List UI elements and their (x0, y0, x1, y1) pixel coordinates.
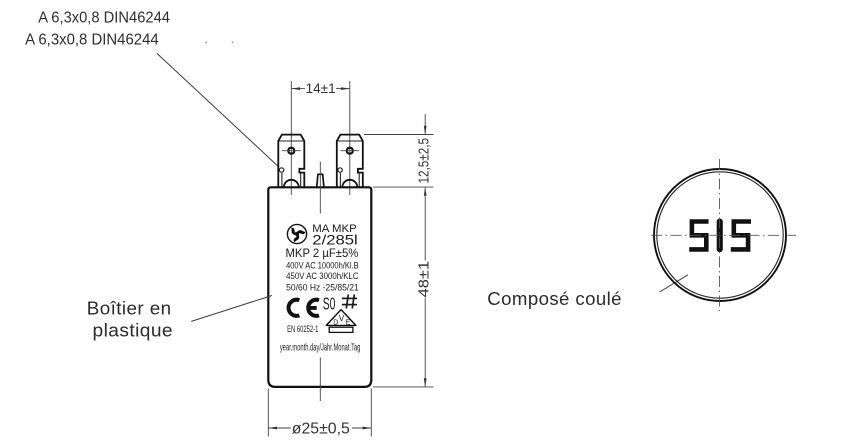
svg-text:450V AC 3000h/KLC: 450V AC 3000h/KLC (286, 271, 359, 281)
svg-text:50/60 Hz -25/85/21: 50/60 Hz -25/85/21 (286, 282, 359, 292)
svg-text:12,5±2,5: 12,5±2,5 (415, 138, 432, 184)
svg-text:14±1: 14±1 (306, 81, 336, 96)
svg-text:A 6,3x0,8 DIN46244: A 6,3x0,8 DIN46244 (25, 32, 159, 49)
svg-text:2/285l: 2/285l (312, 232, 357, 247)
svg-text:A 6,3x0,8 DIN46244: A 6,3x0,8 DIN46244 (38, 9, 170, 26)
svg-text:48±1: 48±1 (415, 261, 432, 298)
svg-text:EN 60252-1: EN 60252-1 (287, 324, 318, 334)
svg-text:Composé coulé: Composé coulé (487, 288, 622, 309)
svg-text:400V AC 10000h/Kl.B: 400V AC 10000h/Kl.B (286, 260, 359, 270)
svg-text:Boîtier en: Boîtier en (87, 298, 172, 319)
svg-text:MKP 2 µF±5%: MKP 2 µF±5% (286, 248, 359, 260)
svg-text:S0: S0 (323, 293, 336, 313)
svg-text:plastique: plastique (93, 319, 174, 340)
svg-text:D: D (333, 319, 338, 326)
svg-text:V: V (339, 314, 345, 323)
svg-text:year.month.day/Jahr.Monat.Tag: year.month.day/Jahr.Monat.Tag (280, 342, 361, 353)
svg-text:E: E (346, 319, 351, 326)
svg-text:ø25±0,5: ø25±0,5 (292, 420, 350, 437)
